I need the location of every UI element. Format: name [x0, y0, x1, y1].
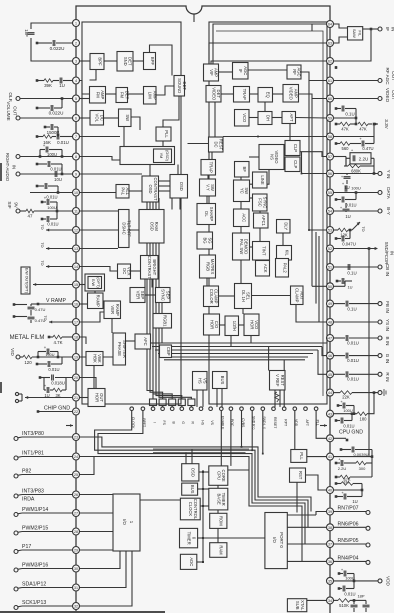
wire rail A to pin53 row [308, 229, 310, 231]
terminal YC IN pin48 [333, 319, 390, 331]
wire pin43 with resistor 180 [333, 391, 375, 421]
block OSD CONTRAST [142, 176, 159, 202]
wire I/O PORT0 to pin37 [287, 543, 326, 545]
wire IF return to pin62 [333, 28, 372, 61]
block DL SHARP [197, 204, 216, 225]
MCU sub-block double rectangle [153, 449, 249, 453]
block RF AGC [287, 65, 302, 79]
pin 22 [73, 408, 80, 415]
block ADC [180, 554, 196, 569]
pin 55 [327, 189, 334, 196]
block SW [119, 109, 132, 127]
pin 4 [73, 77, 80, 84]
wire SUB XTAL to pin34 [307, 599, 327, 601]
wire YM OSD to OSD CONTRAST [149, 165, 151, 177]
wire ACC to PAL SW [240, 227, 242, 234]
terminal CB IN pin51 with capacitor 0.1U [333, 264, 390, 276]
wire I/O PORT0 to pin36 [287, 560, 326, 562]
capacitor 100U pin35 up branch [338, 567, 355, 581]
block LIM AMP [144, 87, 158, 105]
terminal P82 pin25 [14, 469, 73, 478]
block DLY [277, 220, 291, 234]
pin 43 [327, 410, 334, 417]
pin 35 [327, 577, 334, 584]
block PAL ALL [116, 185, 130, 199]
wire BF to YC SW [240, 177, 242, 180]
block SAW FIL [348, 27, 363, 40]
block YM OSD wide [120, 147, 175, 165]
capacitor 0.01U pin47 to B terminal [333, 335, 390, 346]
wire PLL to pin41 [307, 456, 327, 458]
block AFT [282, 112, 296, 124]
block TRAP [201, 160, 216, 176]
pin 42 [327, 435, 334, 442]
capacitor 0.01U pin19 down branch [36, 357, 62, 372]
pin 16 [73, 301, 80, 308]
pin 1 [73, 20, 80, 27]
capacitor 0.01U pin35 down branch [338, 581, 356, 597]
terminal P17 pin29 [14, 544, 73, 553]
terminal 9V SIF pin11 with resistor 47 [7, 201, 73, 218]
pin 10 [73, 189, 80, 196]
block HOR C/O [204, 314, 220, 335]
block DC REST [209, 137, 224, 152]
block RGB MATRIX [200, 255, 216, 278]
wire pin10 to PAL ALL [79, 192, 116, 194]
pin 41 [327, 453, 334, 460]
wire HBK VBK to HOR OUT [93, 366, 95, 389]
OSD bus vertical bundle [147, 198, 191, 399]
wire FM chain [106, 93, 144, 95]
block YC SW [234, 180, 250, 202]
block CLAMP ADJ [291, 286, 305, 305]
wire AFC to CBP [151, 342, 160, 344]
block DH [258, 112, 272, 125]
bus drop to right pins [318, 338, 327, 374]
wire pin63 internal feed to VIF AMP [209, 43, 327, 64]
block RST [290, 468, 306, 482]
wire RGB1 to bus [161, 328, 163, 343]
block SYNC SEP [156, 288, 171, 303]
wire LIM AMP to SOUND DET [156, 86, 174, 95]
wire pin28 to I/O 1 [79, 531, 113, 533]
pin 28 [73, 528, 80, 535]
terminal INT1/P81 pin24 [14, 451, 73, 460]
block CLOCK CONTROL [180, 498, 200, 520]
block OSD [170, 175, 188, 199]
terminal PWM1/P14 pin27 [14, 507, 73, 516]
capacitor 100U pin19 up branch [38, 345, 59, 358]
stub below pin62 [335, 66, 338, 69]
wire OSD CONTRAST to OSD arrows [159, 181, 171, 191]
capacitor 0.022U below pin5 [36, 97, 64, 115]
terminal INT3/P80 pin23 [14, 431, 73, 440]
pin 49 [327, 300, 334, 307]
pin 51 [327, 264, 334, 271]
wire TIMER0 to I/O PORT 0 [203, 537, 265, 539]
wire bus to V REF REST [268, 347, 270, 371]
pin 53 [327, 227, 334, 234]
block HOR VCO [244, 314, 259, 336]
capacitor 1U pin40 down branch [335, 490, 362, 504]
block VIDEO DET [206, 86, 221, 103]
pin 59 [327, 115, 334, 122]
wire pin1 loop to pin3 [31, 23, 73, 61]
pin 50 [327, 283, 334, 290]
wire notch stub [193, 14, 195, 22]
wire RESET terminal up [283, 360, 285, 407]
capacitor 2.2U box with resistor 680K pin57 [333, 148, 375, 175]
wire PAL SW to TINT [249, 246, 255, 248]
block TRAP [234, 87, 250, 103]
wire BASE TIMER to ROM [217, 510, 219, 513]
pin 3 [73, 58, 80, 65]
wire SAW to pin63 [333, 37, 347, 43]
block BASE TIMER [209, 488, 228, 510]
wire VOL DC to SW [104, 117, 119, 119]
wire BPF2 up to SOUND DET [150, 45, 173, 76]
pin 23 [73, 434, 80, 441]
wire pin58 up to 47K node [333, 123, 375, 137]
pin 25 [73, 471, 80, 478]
wire E/W to RAMP [94, 291, 96, 293]
pin 44 [327, 389, 334, 396]
pin 7 [73, 133, 80, 140]
pin 61 [327, 77, 334, 84]
block HOR OUT [88, 389, 105, 407]
pin 46 [327, 352, 334, 359]
nested wire bundle lower [79, 411, 311, 562]
capacitor 1U below pin56 wire [341, 174, 351, 191]
terminal RF AGC OUT pin61 [333, 67, 394, 85]
terminal RN4/P04 pin36 [333, 555, 370, 564]
wire SAW to pin64 [333, 24, 347, 28]
block 1/2fH [225, 316, 239, 336]
wire pin25 joins bundle [79, 457, 94, 475]
label E/W OUT (OPTION) with arrow pin15 [21, 267, 73, 294]
arrow TO pin17 [43, 315, 73, 323]
terminal INT3/P83 pin26 [14, 489, 73, 503]
wire CLP to pin57 [300, 152, 327, 157]
block V REF REST [270, 371, 286, 391]
wire TRAP2 to V.Y SW [207, 175, 209, 179]
wire YC SW to FSC SYNC [250, 197, 253, 199]
wire pin7 into IC [79, 136, 120, 138]
block OSD [182, 464, 199, 481]
block CPU CORE [209, 466, 228, 485]
wire SW up [131, 117, 140, 130]
wire DC REST row to pin58 [223, 136, 327, 138]
tick arrow below pin43 [320, 424, 327, 427]
pin 37 [327, 541, 334, 548]
capacitor 0.01U pin45 to R terminal [333, 371, 390, 381]
MCU spine stubs [197, 472, 209, 562]
horizontal bus lines middle [152, 343, 327, 360]
wire OSD MCU up to bundle [186, 449, 192, 464]
wire CONTRAST BRIGHT to VER SEP [145, 279, 152, 288]
block DSI4C TLT-OFF [119, 210, 132, 248]
wire 1/2fH to bus [230, 336, 232, 347]
block HS VS [193, 372, 208, 391]
wire pin20 to HOR OUT [79, 378, 96, 389]
arrow SND/PCOR IN pin52 [333, 242, 394, 265]
internal vertical rail A [308, 81, 310, 231]
pin 39 [327, 508, 334, 515]
pin 6 [73, 115, 80, 122]
block RAM [210, 543, 227, 558]
terminal OLF pin5 [7, 92, 73, 101]
block BPF [144, 53, 156, 70]
block VIDEO AMP [283, 85, 299, 103]
wire OSD second drop [179, 198, 181, 210]
internal interface terminal row [130, 407, 320, 430]
terminal VIDEO OUT pin60 [333, 88, 394, 103]
wire PAL SW to DL 1H [240, 260, 242, 284]
wire COLOR CLAMP to DL 1H [219, 295, 235, 297]
resistors 47K 47K to 3.3V [335, 119, 389, 131]
block E/W double rect [85, 274, 105, 291]
inner sub-block rect A (signal processor left) [82, 22, 181, 404]
wire pin29 to I/O 1 [79, 549, 113, 551]
wire pin16 to RAMP [79, 303, 87, 305]
pin 2 [73, 40, 80, 47]
pin 64 [327, 21, 334, 28]
block EQ [258, 88, 273, 103]
internal vertical rail B [311, 99, 313, 287]
wire VER SEP to SYNC SEP [145, 294, 156, 296]
wire pin30 up into I/O 1 [79, 551, 120, 569]
block VER SEP [130, 288, 145, 303]
resistor 12K pin53 with TO arrow [333, 222, 365, 238]
block APC1 [254, 213, 269, 228]
wire rail B to pin50 [312, 285, 327, 287]
wire FSC SYNC to APC1 [259, 211, 261, 213]
wire pin15 to E/W block [79, 284, 85, 286]
wire VIDEO DET chain [221, 93, 283, 95]
wire SYNC SEP to RGB1 [161, 303, 163, 314]
pin 20 [73, 374, 80, 381]
block KIL [277, 246, 292, 261]
wire 1/2fH to HOR VCO [239, 324, 245, 326]
block BF [235, 162, 250, 178]
block PLL [156, 127, 171, 141]
terminal RN5/P05 pin37 [333, 538, 370, 547]
wire SW to YM OSD [123, 127, 125, 147]
resistor 16K / capacitor 0.01U pin7 [36, 134, 73, 146]
block CONTRAST BRIGHT [141, 256, 159, 280]
wire pin4 to FM AMP [79, 81, 89, 95]
terminal VDD pin35 [333, 576, 390, 586]
wire pin42 internal to row [316, 411, 327, 439]
block PAL SW DEMOD [233, 233, 250, 260]
arrow TO pin21 with connector circles [15, 392, 72, 402]
wire pin19 to PHASE SHIFTER [79, 356, 113, 358]
wire PLL to YM OSD [162, 141, 164, 147]
wire SOUND DET down to PLL [163, 96, 179, 127]
wire BPF to SND DET [104, 60, 117, 62]
wire VER RAMP to PHASE SHIFT [111, 319, 113, 334]
terminal PWM3/P16 pin30 [14, 563, 73, 572]
block VCO [235, 110, 250, 127]
wire BF to NS VIDEO [249, 156, 262, 158]
arrow TO pin14 [40, 260, 73, 268]
resistor 560 capacitor 0.47U pin58 branch [335, 136, 374, 151]
block HBK VBK [86, 352, 103, 366]
pin 54 [327, 208, 334, 215]
pin 19 [73, 354, 80, 361]
block FSC SYNC [253, 194, 268, 211]
wire RST to pin40 [306, 475, 327, 490]
wire DC VER to CONTRAST BRIGHT [131, 270, 141, 272]
terminal RN7/P07 pin39 [333, 506, 370, 515]
block SOUND DET [174, 76, 187, 97]
block BUS [182, 483, 198, 495]
wire pin8 into IC [79, 157, 120, 161]
tick below pin22 [66, 424, 73, 427]
block I/O 1 [113, 494, 140, 551]
wire RST to I/O PORT 0 [296, 482, 298, 512]
block VER RAMP [104, 301, 121, 319]
stub pin42 [333, 438, 348, 441]
capacitor 2.2U resistor 300 pin41 lower network [335, 457, 372, 485]
wire pin3 to BPF [79, 60, 90, 62]
pin 15 [73, 281, 80, 288]
vertical rail right side [368, 249, 370, 458]
wire pin27 to I/O 1 [79, 512, 113, 514]
pin 52 [327, 245, 334, 252]
pin 5 [73, 95, 80, 102]
wire pin62 internal feed [211, 61, 327, 64]
block BPF [90, 54, 104, 70]
terminal Y IN pin56 [333, 170, 391, 179]
capacitor 1500P pin7 branch [44, 124, 60, 137]
pin 34 [327, 597, 334, 604]
pin 58 [327, 133, 334, 140]
wire VIDEO AMP to pin60 [299, 94, 327, 99]
capacitor 0.047U pin53 down branch [335, 229, 356, 247]
block BUS [213, 372, 228, 389]
block CLP [285, 157, 300, 172]
inner sub-block rect B (signal processor right) [209, 22, 327, 404]
arrow TO pin13 [40, 242, 73, 250]
block BG SG [197, 232, 213, 249]
pin 21 [73, 394, 80, 401]
wire OSD to DC REST [188, 143, 209, 145]
resistor 39K / capacitor 1U pin4 [36, 78, 73, 89]
terminal VID / resistor 120 pin19 [10, 348, 73, 365]
wire ROM to RAM [217, 528, 219, 542]
wire pin40 [333, 489, 363, 492]
wire DLY to KIL [282, 233, 284, 246]
block DL 1H SEL [235, 284, 252, 309]
wire DC REST to TRAP2 [211, 152, 213, 160]
block COLOR CLAMP [204, 286, 219, 307]
wire pin26 to I/O 1 [79, 494, 113, 496]
capacitor 0.01U pin9 branch [36, 161, 64, 175]
internal vertical rail D [318, 236, 320, 322]
terminal PWM2/P15 pin28 [14, 526, 73, 535]
wire IF AGC to RF AGC [248, 69, 287, 71]
wire pin5 to FM AMP [79, 98, 89, 100]
V RAMP label and pin16 network [13, 298, 73, 323]
capacitor 0.01U pin11 down branch [41, 211, 59, 227]
wire rail A to pin53 [309, 229, 327, 231]
wire pin6 to VOL DC [79, 117, 90, 119]
terminal SDA1/P12 pin31 [14, 582, 73, 591]
pin 24 [73, 453, 80, 460]
terminal RN6/P06 pin38 [333, 521, 370, 530]
block IF AGC [233, 63, 249, 80]
block ACC [234, 209, 250, 227]
wire CPU CORE right [228, 469, 249, 471]
block VOL DC [90, 111, 104, 126]
pin 45 [327, 371, 334, 378]
block VIF AMP [204, 64, 219, 81]
wire pin9 into IC [79, 173, 142, 175]
pin 36 [327, 558, 334, 565]
block OSD RAM [139, 210, 164, 244]
pin 14 [73, 263, 80, 270]
wire YM OSD to OSD [177, 165, 179, 175]
capacitor 0.0039U pin41 up branch [340, 447, 372, 458]
block FM AMP [90, 87, 106, 104]
capacitor 18P (vertical) [24, 29, 35, 37]
pin 27 [73, 510, 80, 517]
wire APC1 to TINT [259, 228, 261, 242]
wire HOR C/O to 1/2fH [220, 324, 226, 326]
block SND DET [117, 52, 133, 72]
wire HS VS block down [197, 390, 203, 407]
wire HOR VCO to bus [250, 336, 252, 344]
pin 13 [73, 245, 80, 252]
block NS VIDEO [259, 145, 284, 170]
pin 62 [327, 58, 334, 65]
capacitor 0.01U pin55 down branch [335, 191, 358, 207]
resistor 510K crystal network pin34 [333, 594, 369, 613]
capacitor 100U on pin55 wire [342, 181, 361, 192]
capacitor 100U pin43 up branch [337, 399, 354, 414]
wire BUS block down [217, 389, 222, 407]
pin 9 [73, 171, 80, 178]
wire RGB MATRIX to COLOR CLAMP [206, 278, 208, 286]
CHIP GND pin22 [37, 406, 73, 413]
block LINE [253, 172, 268, 188]
wire I/O1 to CLOCK CONTROL [140, 499, 180, 501]
pin 40 [327, 487, 334, 494]
pin 38 [327, 524, 334, 531]
wire OSD osc column [171, 198, 173, 210]
wire I/O PORT0 to pin39 [287, 512, 326, 516]
wire V REF REST down with resistor [275, 390, 280, 407]
wire VIDEO DET to DC REST [214, 102, 216, 137]
wire pin17 to VER RAMP [79, 312, 104, 322]
wire pin59 [333, 117, 357, 120]
wire pin41 [333, 455, 373, 458]
wire CPU CORE to BASE TIMER [217, 485, 219, 488]
capacitor 0.1U pin49 to FB terminal [333, 301, 390, 313]
capacitor 1U pin54 branch [340, 203, 351, 219]
block FM DET [116, 88, 129, 103]
wire NS VIDEO down to YC SW [250, 169, 270, 185]
block CBP [160, 345, 172, 358]
METAL FILM resistor 4.7K pin18 [10, 335, 73, 345]
terminal RIGHT-AUDIO IN pin9 [5, 153, 73, 182]
terminal IF IN [363, 27, 394, 32]
wire pin18 into IC [79, 337, 86, 344]
block TIMER 0 [180, 528, 198, 547]
capacitor 0.01U pin43 down branch / CPU GND [335, 412, 364, 435]
wire DL 1H to HOR area [242, 309, 244, 315]
